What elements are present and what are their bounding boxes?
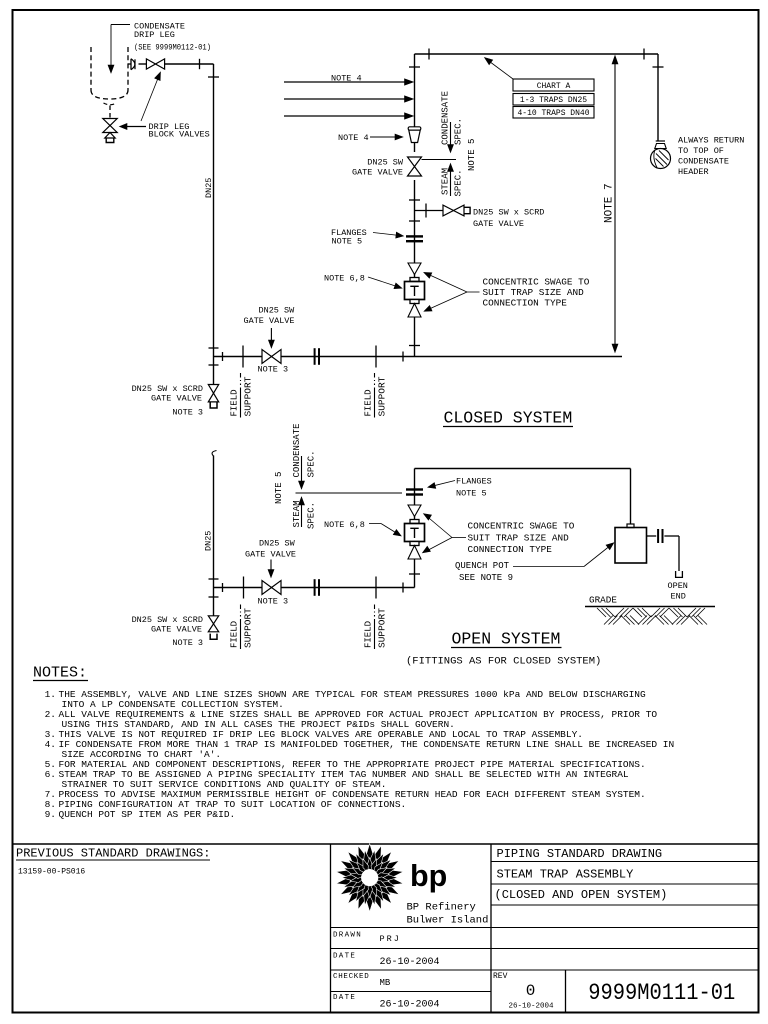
svg-text:FIELD: FIELD [364,389,374,416]
svg-text:NOTE 4: NOTE 4 [338,133,369,143]
svg-text:NOTES:: NOTES: [33,665,87,682]
svg-text:ALWAYS RETURN: ALWAYS RETURN [678,136,744,146]
svg-text:NOTE 4: NOTE 4 [331,74,362,84]
svg-text:DATE: DATE [333,953,356,961]
svg-text:9.: 9. [45,809,56,820]
svg-text:NOTE 5: NOTE 5 [332,237,363,247]
svg-text:1-3 TRAPS DN25: 1-3 TRAPS DN25 [520,96,587,105]
svg-text:1.: 1. [45,689,56,700]
svg-text:SUIT TRAP SIZE AND: SUIT TRAP SIZE AND [483,287,585,298]
svg-text:GATE VALVE: GATE VALVE [151,394,202,404]
svg-text:SPEC.: SPEC. [454,118,464,145]
svg-text:QUENCH POT: QUENCH POT [455,561,510,571]
svg-text:REV: REV [493,972,508,981]
svg-text:HEADER: HEADER [678,167,709,177]
svg-text:SUPPORT: SUPPORT [377,608,388,648]
svg-text:BLOCK VALVES: BLOCK VALVES [149,130,210,140]
svg-text:6.: 6. [45,769,56,780]
svg-text:SUPPORT: SUPPORT [243,376,254,416]
svg-text:FLANGES: FLANGES [456,477,492,487]
svg-text:QUENCH POT SP ITEM AS PER P&ID: QUENCH POT SP ITEM AS PER P&ID. [59,809,236,820]
svg-text:DN25: DN25 [204,178,214,198]
svg-text:NOTE 7: NOTE 7 [604,183,616,223]
svg-text:PREVIOUS STANDARD DRAWINGS:: PREVIOUS STANDARD DRAWINGS: [16,847,210,861]
svg-text:SUIT TRAP SIZE AND: SUIT TRAP SIZE AND [468,533,570,544]
svg-text:4.: 4. [45,739,56,750]
svg-text:DN25 SW: DN25 SW [259,539,296,549]
svg-text:(CLOSED AND OPEN SYSTEM): (CLOSED AND OPEN SYSTEM) [495,888,668,902]
svg-text:GATE VALVE: GATE VALVE [151,625,202,635]
svg-text:NOTE 6,8: NOTE 6,8 [324,274,365,284]
svg-text:OPEN: OPEN [668,581,688,591]
svg-text:NOTE 5: NOTE 5 [274,472,284,504]
svg-text:FIELD: FIELD [230,389,240,416]
svg-text:(SEE 9999M0112-01): (SEE 9999M0112-01) [134,43,211,53]
svg-text:CONCENTRIC SWAGE TO: CONCENTRIC SWAGE TO [468,521,575,532]
svg-text:bp: bp [410,859,447,893]
svg-text:26-10-2004: 26-10-2004 [380,957,440,968]
svg-text:26-10-2004: 26-10-2004 [508,1003,554,1011]
svg-text:CLOSED SYSTEM: CLOSED SYSTEM [444,409,573,428]
svg-text:CHECKED: CHECKED [333,973,369,981]
svg-text:DRAWN: DRAWN [333,931,362,939]
svg-text:FIELD: FIELD [230,621,240,648]
svg-text:PIPING STANDARD DRAWING: PIPING STANDARD DRAWING [497,847,663,861]
svg-text:SPEC.: SPEC. [454,169,464,196]
svg-text:CONCENTRIC SWAGE TO: CONCENTRIC SWAGE TO [483,277,590,288]
svg-text:PRJ: PRJ [380,934,401,944]
svg-text:NOTE 3: NOTE 3 [172,638,203,648]
svg-text:OPEN SYSTEM: OPEN SYSTEM [452,630,561,649]
svg-text:9999M0111-01: 9999M0111-01 [588,980,735,1006]
svg-text:DN25 SW x SCRD: DN25 SW x SCRD [473,208,544,218]
svg-text:GATE VALVE: GATE VALVE [473,219,524,229]
svg-text:CHART A: CHART A [537,82,571,91]
svg-text:DN25 SW x SCRD: DN25 SW x SCRD [132,384,203,394]
svg-text:GATE VALVE: GATE VALVE [352,168,403,178]
svg-text:NOTE 3: NOTE 3 [172,408,203,418]
svg-text:MB: MB [380,978,391,988]
svg-text:FIELD: FIELD [364,621,374,648]
svg-text:NOTE 6,8: NOTE 6,8 [324,520,365,530]
svg-text:CONNECTION TYPE: CONNECTION TYPE [483,298,568,309]
svg-text:DN25 SW: DN25 SW [367,158,404,168]
svg-text:DATE: DATE [333,994,356,1002]
svg-text:STEAM: STEAM [441,168,451,195]
svg-text:GATE VALVE: GATE VALVE [244,316,295,326]
svg-text:CONDENSATE: CONDENSATE [441,91,451,145]
svg-text:GRADE: GRADE [589,595,617,606]
svg-text:DN25 SW x SCRD: DN25 SW x SCRD [132,615,203,625]
svg-text:DN25: DN25 [204,531,214,551]
svg-text:BP Refinery: BP Refinery [407,902,476,914]
svg-text:SUPPORT: SUPPORT [243,608,254,648]
svg-text:Bulwer Island: Bulwer Island [407,915,489,927]
svg-text:SUPPORT: SUPPORT [377,376,388,416]
svg-text:(FITTINGS AS FOR CLOSED SYSTEM: (FITTINGS AS FOR CLOSED SYSTEM) [406,656,601,668]
svg-text:SEE NOTE 9: SEE NOTE 9 [459,573,513,583]
svg-text:CONDENSATE: CONDENSATE [678,157,729,167]
svg-text:2.: 2. [45,709,56,720]
svg-text:GATE VALVE: GATE VALVE [245,550,296,560]
svg-text:STEAM: STEAM [292,500,302,527]
svg-text:STEAM TRAP ASSEMBLY: STEAM TRAP ASSEMBLY [497,868,634,882]
svg-text:NOTE 3: NOTE 3 [258,365,289,375]
svg-text:NOTE 5: NOTE 5 [456,489,487,499]
svg-text:26-10-2004: 26-10-2004 [380,1000,440,1011]
svg-text:DN25 SW: DN25 SW [259,306,296,316]
svg-text:NOTE 3: NOTE 3 [258,597,289,607]
svg-text:NOTE 5: NOTE 5 [467,139,477,171]
svg-text:TO TOP OF: TO TOP OF [678,146,724,156]
svg-text:4-10 TRAPS DN40: 4-10 TRAPS DN40 [517,109,589,118]
svg-text:SPEC.: SPEC. [307,502,317,529]
svg-text:CONDENSATE: CONDENSATE [292,423,302,477]
svg-text:END: END [671,592,686,602]
svg-text:0: 0 [526,982,536,1000]
svg-text:CONNECTION TYPE: CONNECTION TYPE [468,544,553,555]
svg-text:DRIP LEG: DRIP LEG [134,30,175,40]
svg-text:SPEC.: SPEC. [307,450,317,477]
svg-text:13159-00-PS016: 13159-00-PS016 [18,868,85,877]
